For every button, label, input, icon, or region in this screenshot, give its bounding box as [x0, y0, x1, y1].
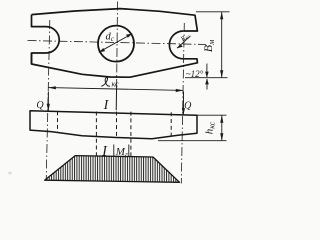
fork radius arrow: [177, 36, 191, 48]
svg-text:Q: Q: [36, 100, 44, 111]
label |Mg|: [113, 145, 115, 157]
dim hkc extension bottom: [158, 140, 227, 142]
force Q right arrow: [182, 92, 184, 115]
right bolt axis: [181, 23, 184, 184]
force Q left arrow: [47, 92, 49, 111]
central vertical axis: [116, 2, 119, 89]
dim Bm reference bottom: [185, 77, 228, 79]
dim hkc line: [221, 115, 223, 141]
beam (cap side view) outline: [30, 111, 197, 139]
svg-text:кс: кс: [112, 80, 119, 89]
left bolt axis: [46, 20, 50, 181]
right fork slot arc: [169, 31, 183, 59]
dashed section line a: [57, 111, 59, 132]
horizontal centerline: [28, 41, 207, 45]
svg-text:~12°: ~12°: [186, 69, 204, 79]
svg-text:Q: Q: [184, 100, 192, 111]
section line I above beam: [115, 87, 117, 111]
dashed section line e: [170, 112, 172, 136]
dashed section line b: [95, 112, 97, 157]
dim hkc extension top: [198, 114, 227, 116]
left fork slot arc: [46, 27, 59, 53]
dashed section line d: [130, 112, 132, 157]
label lkc: [101, 78, 110, 87]
dashed section line c: [116, 112, 118, 138]
close left outline verticals: [31, 15, 33, 64]
dim Bm line: [221, 12, 223, 78]
hole diameter arrow: [99, 34, 133, 53]
central hole circle: [98, 26, 134, 62]
plate outline (cap top view): [32, 9, 198, 78]
dim Bm extension top: [196, 11, 230, 13]
angle arrows: [206, 64, 208, 78]
moment diagram trapezoid with hatching: [45, 156, 180, 183]
faint scan smudge: [8, 172, 12, 175]
dim lkc line: [48, 88, 183, 91]
